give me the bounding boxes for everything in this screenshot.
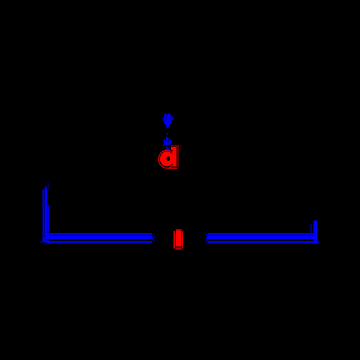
via/marker lower blue blob (down arrow) — [163, 137, 171, 151]
wire: right horizontal segment (triple-line trace) — [206, 233, 317, 243]
pad/label I (red current label on trace gap) — [173, 229, 183, 250]
wire: left vertical riser — [43, 181, 49, 242]
label d (red distance label with outline halo) — [159, 146, 181, 169]
via/marker upper blue blob — [162, 113, 174, 128]
wire: left horizontal segment (triple-line trace) — [46, 233, 154, 243]
wire: left corner joint — [40, 238, 53, 244]
marker dot between blobs — [167, 133, 168, 134]
wire: right vertical riser — [308, 221, 320, 244]
